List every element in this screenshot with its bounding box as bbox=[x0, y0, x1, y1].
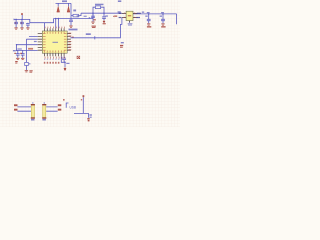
svg-text:USB: USB bbox=[70, 106, 77, 110]
